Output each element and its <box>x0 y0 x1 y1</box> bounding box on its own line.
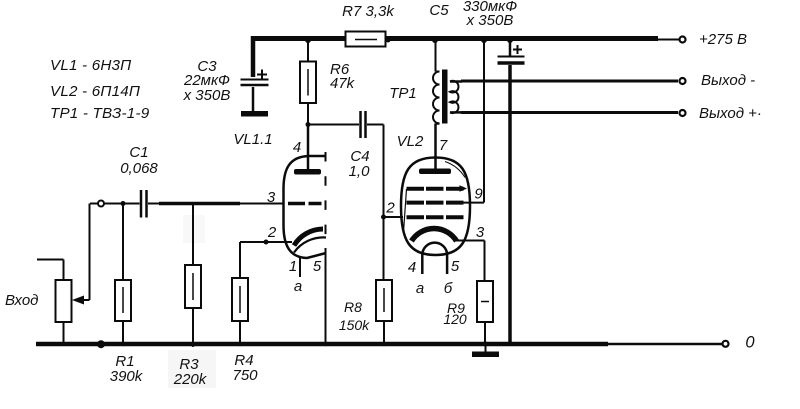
VL1.1 grid <box>288 202 322 206</box>
wire VL1 cathode pin 2 to R4 <box>240 241 292 243</box>
resistor R4 <box>232 278 248 321</box>
resistor R6 <box>307 41 309 62</box>
resistor R8 <box>376 280 392 321</box>
node R8 / ground bus <box>382 342 386 346</box>
svg-text:390k: 390k <box>110 368 144 385</box>
wire VL2 cathode pin 3 to R9 <box>456 241 485 282</box>
svg-text:б: б <box>444 280 453 297</box>
node R7 output <box>386 38 391 43</box>
svg-text:5: 5 <box>313 258 322 275</box>
svg-text:Вход: Вход <box>5 292 38 309</box>
terminal 0 <box>723 341 729 347</box>
capacitor C5 <box>509 41 512 56</box>
svg-text:x 350В: x 350В <box>183 87 231 104</box>
VL2 glass highlight left <box>404 189 407 232</box>
node R1 / ground bus <box>121 342 125 346</box>
transformer TP1 secondary winding <box>450 81 458 113</box>
wire secondary top connector <box>450 80 462 83</box>
svg-text:47k: 47k <box>330 75 356 92</box>
VL2 grid row 1 <box>407 187 464 191</box>
svg-text:1: 1 <box>289 258 297 275</box>
wire VL1 pin 5 to ground bus <box>325 248 327 342</box>
resistor R9 <box>477 281 493 322</box>
wire R3 riser <box>192 204 194 265</box>
input node ring <box>98 201 104 207</box>
transformer TP1 primary winding <box>433 72 440 124</box>
svg-text:Выход +·: Выход +· <box>699 105 762 122</box>
wire C5 to ground bus <box>508 65 512 342</box>
node C1 / R1 <box>121 201 126 206</box>
resistor R3 <box>185 265 201 308</box>
wire R4 riser <box>239 242 241 278</box>
wire Выход - <box>461 80 678 83</box>
svg-text:Выход -: Выход - <box>701 72 755 89</box>
svg-text:1,0: 1,0 <box>349 163 371 180</box>
VL1.1 pin 1 lead <box>299 256 301 277</box>
capacitor C4 <box>359 111 362 138</box>
svg-text:+275 В: +275 В <box>699 31 747 48</box>
svg-text:9: 9 <box>474 186 483 203</box>
wire ground bus <box>36 342 608 347</box>
svg-text:150k: 150k <box>339 317 370 333</box>
node VL1 anode / C4 <box>306 122 311 127</box>
junction blob on ground bus <box>97 340 105 348</box>
node rail / screen grid <box>481 37 487 43</box>
capacitor C1 <box>140 190 143 218</box>
VL2 grid row 1 arrow <box>460 185 468 192</box>
VL2 grid row 2 screen <box>407 201 464 205</box>
svg-text:0,068: 0,068 <box>120 160 158 177</box>
svg-text:5: 5 <box>451 258 460 275</box>
svg-text:C5: C5 <box>429 2 449 19</box>
svg-text:3: 3 <box>267 189 276 206</box>
svg-text:VL1 - 6Н3П: VL1 - 6Н3П <box>50 57 132 74</box>
wire potentiometer wiper <box>78 204 90 301</box>
resistor R1 <box>115 280 131 321</box>
node VL2 grid junction <box>381 215 386 220</box>
potentiometer wiper arrow <box>72 296 84 305</box>
wire rail to TP1 primary <box>436 41 440 72</box>
terminal Выход + <box>680 110 686 116</box>
node pin 5 / ground bus <box>323 342 327 346</box>
wire C4 to R8 <box>367 125 384 281</box>
transformer TP1 core <box>442 70 448 124</box>
svg-text:0: 0 <box>745 334 755 352</box>
node rail / C5 <box>507 37 513 43</box>
svg-text:VL2 - 6П14П: VL2 - 6П14П <box>50 83 141 100</box>
svg-text:3: 3 <box>476 224 485 241</box>
VL2 glass highlight right <box>445 162 465 178</box>
node on pin 2 wire <box>264 240 269 245</box>
VL1.1 pin 4 lead <box>307 125 310 169</box>
VL1.1 envelope dashed half <box>325 152 327 250</box>
VL2 cathode <box>412 229 457 242</box>
tube VL1.1 envelope <box>284 156 327 258</box>
node R4 / ground bus <box>238 342 242 346</box>
wire R1 riser <box>122 204 124 280</box>
svg-text:220k: 220k <box>173 371 208 388</box>
node rail / TP1 primary <box>432 37 438 43</box>
terminal Выход - <box>680 78 686 84</box>
wire secondary bottom connector <box>450 111 462 114</box>
tube VL2 envelope <box>401 158 470 256</box>
svg-text:VL2: VL2 <box>397 133 424 150</box>
svg-text:x 350В: x 350В <box>466 12 514 29</box>
wire rail to VL2 screen grid pin 9 <box>483 41 485 203</box>
VL1.1 cathode <box>294 229 323 246</box>
wire anode node to C4 <box>308 124 359 126</box>
svg-text:а: а <box>416 280 424 297</box>
wire input to potentiometer top <box>37 260 64 281</box>
node rail / R6 <box>305 37 311 43</box>
svg-text:R7 3,3k: R7 3,3k <box>342 3 395 20</box>
ground symbol <box>485 344 487 353</box>
wire ground bus thin end <box>608 343 723 346</box>
capacitor C3 <box>251 36 256 77</box>
wire wiper node to C1 <box>90 203 98 205</box>
svg-text:ТР1 - ТВЗ-1-9: ТР1 - ТВЗ-1-9 <box>50 105 150 122</box>
svg-text:а: а <box>294 278 302 295</box>
ground bar of C3 <box>241 111 268 117</box>
svg-text:4: 4 <box>293 139 301 156</box>
VL2 anode plate <box>419 169 451 175</box>
wire +275V rail thin end <box>656 39 679 41</box>
potentiometer Вход <box>56 280 72 322</box>
svg-text:ТР1: ТР1 <box>389 85 417 102</box>
svg-text:7: 7 <box>439 137 448 154</box>
svg-text:120: 120 <box>443 311 467 327</box>
svg-text:2: 2 <box>267 224 277 241</box>
wire Выход + <box>461 111 678 114</box>
terminal +275 В <box>680 37 686 43</box>
wire C1 to VL1 grid pin 3 <box>148 203 284 205</box>
VL2 heater, pins 4 and 5 <box>422 243 447 274</box>
svg-text:4: 4 <box>408 259 416 276</box>
node potentiometer / ground bus <box>62 342 66 346</box>
svg-text:2: 2 <box>385 200 395 217</box>
wire +275V rail, R7 to terminal <box>386 36 658 41</box>
node R9 / ground bus <box>483 342 488 347</box>
resistor R7 <box>346 32 386 47</box>
VL1.1 anode plate <box>294 169 321 175</box>
node R3 / ground bus <box>192 344 195 347</box>
wire TP1 primary to VL2 anode pin 7 <box>436 124 440 169</box>
svg-text:VL1.1: VL1.1 <box>233 131 272 148</box>
VL2 grid row 3 <box>407 215 464 219</box>
wire +275V rail, C3 corner to R7 <box>251 36 345 41</box>
svg-text:C1: C1 <box>129 144 148 161</box>
svg-text:R8: R8 <box>344 299 362 315</box>
svg-text:750: 750 <box>232 367 258 384</box>
wire potentiometer to ground bus <box>63 322 65 342</box>
wire to VL2 grid pin 2 <box>384 216 404 218</box>
